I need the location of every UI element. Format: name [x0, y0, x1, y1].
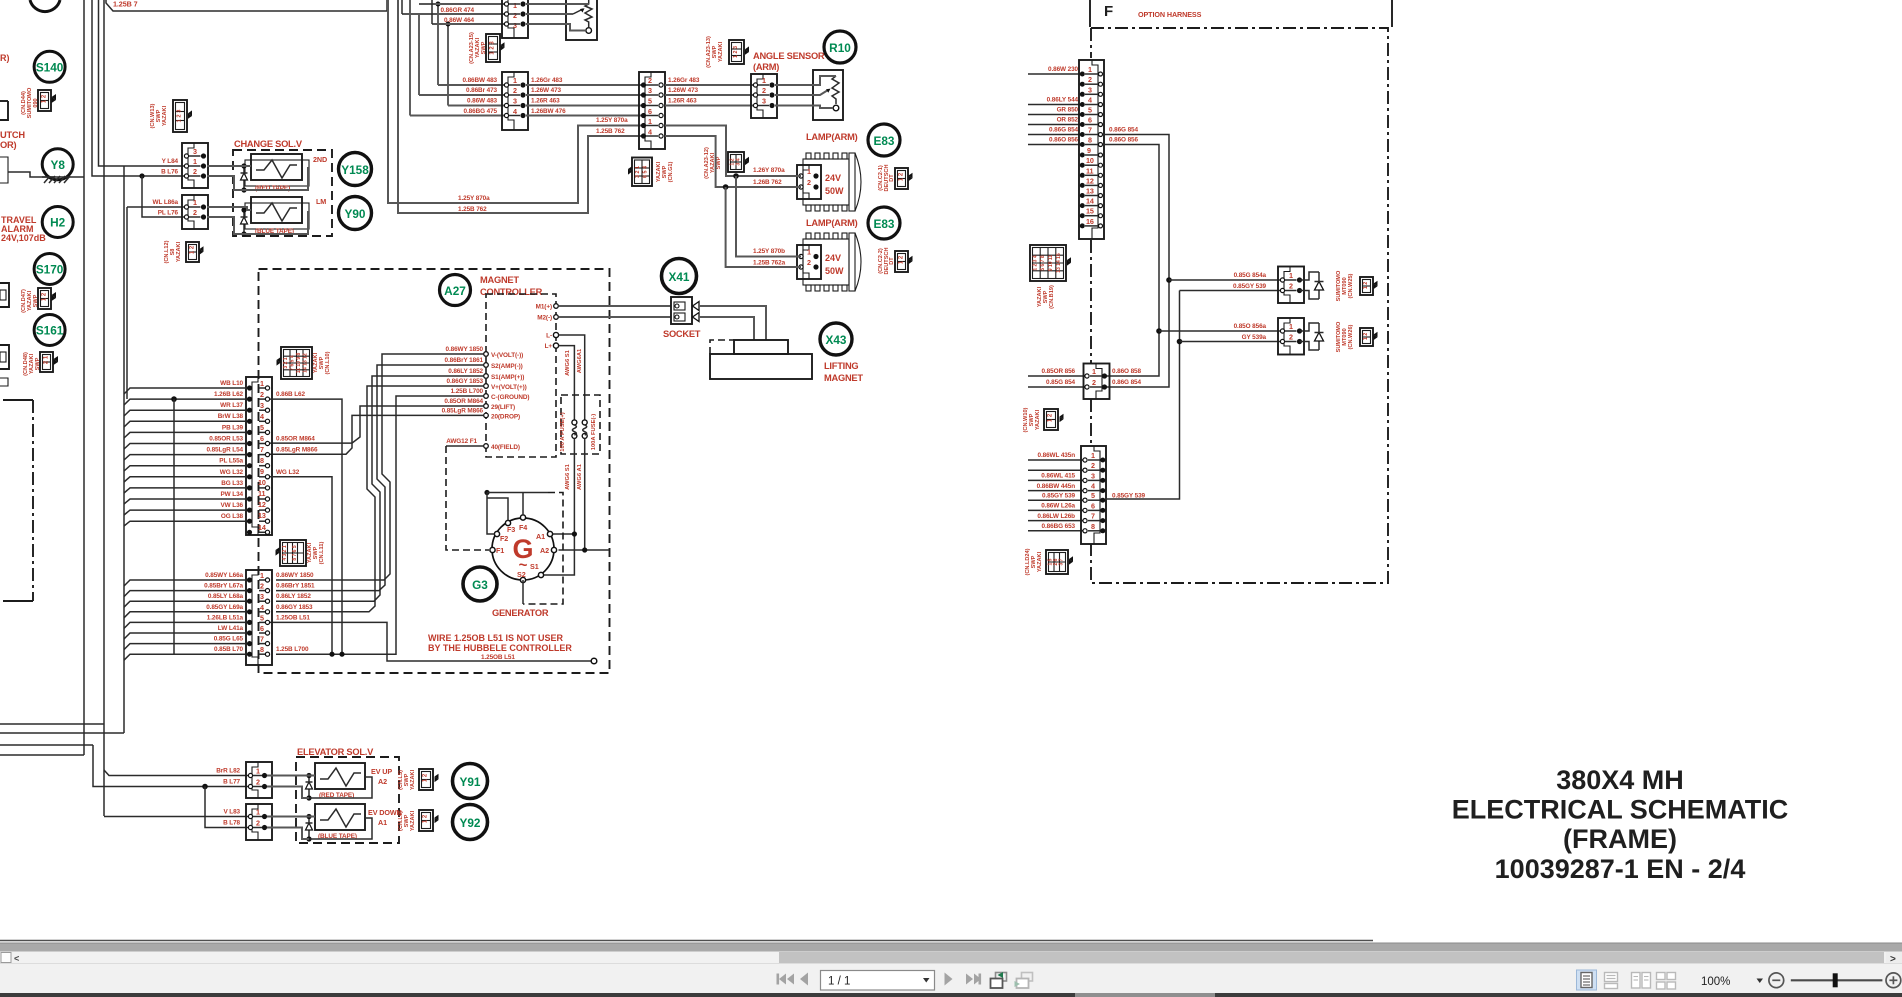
wire 1.25OB L51 run: [270, 622, 597, 663]
svg-text:1: 1: [256, 808, 260, 817]
connector face YAZAKI SWP CN.L10: [277, 347, 332, 379]
toolbar nav prev: [800, 973, 808, 986]
text LIFTING MAGNET: [824, 361, 863, 383]
node diode2 pin2 tap: [1177, 339, 1183, 345]
circle S170: [34, 254, 65, 285]
svg-text:4: 4: [648, 128, 652, 137]
svg-text:1.26B L62: 1.26B L62: [214, 391, 243, 398]
view mode button 1 selected: [1577, 970, 1597, 990]
labels Y L84 B L76: [161, 158, 178, 176]
svg-text:2: 2: [1289, 282, 1293, 291]
svg-text:1.26Y 870a: 1.26Y 870a: [753, 167, 785, 174]
svg-text:YAZAKI: YAZAKI: [1037, 551, 1043, 572]
svg-text:2: 2: [762, 86, 766, 95]
svg-text:3: 3: [1091, 471, 1095, 480]
svg-text:13: 13: [258, 511, 266, 520]
svg-text:24V: 24V: [825, 173, 841, 183]
wires change sol 2: [207, 207, 308, 234]
svg-text:1.25B 7: 1.25B 7: [113, 0, 138, 9]
lamp 1: [797, 153, 861, 211]
svg-text:Y90: Y90: [345, 207, 366, 221]
svg-text:S1(AMP(+)): S1(AMP(+)): [491, 374, 524, 381]
cut text R): [0, 53, 10, 63]
text wire note: [428, 633, 572, 653]
node lamp junctions: [723, 173, 739, 190]
svg-text:1 2: 1 2: [1048, 413, 1054, 422]
svg-text:YAZAKI: YAZAKI: [718, 41, 724, 62]
wires 16-pin left stubs: [1028, 74, 1082, 145]
circle Y158: [339, 153, 372, 186]
svg-text:ELEVATOR SOL.V: ELEVATOR SOL.V: [297, 747, 374, 757]
svg-text:2ND: 2ND: [313, 155, 327, 164]
svg-text:090: 090: [33, 98, 39, 107]
svg-text:8: 8: [1088, 136, 1092, 145]
svg-text:0.86LW L26b: 0.86LW L26b: [1037, 513, 1075, 520]
svg-text:E83: E83: [874, 134, 895, 148]
svg-text:0.86B L62: 0.86B L62: [276, 391, 305, 398]
wire B L78 run: [205, 787, 250, 828]
svg-text:PL L76: PL L76: [158, 210, 179, 217]
svg-text:0.85G 854: 0.85G 854: [1046, 379, 1075, 386]
svg-text:WG L32: WG L32: [276, 469, 300, 476]
svg-text:11: 11: [258, 489, 266, 498]
svg-text:4: 4: [1091, 482, 1095, 491]
labels between connectors: [531, 77, 566, 115]
svg-text:100%: 100%: [1701, 976, 1730, 988]
node top wire junctions: [436, 2, 451, 27]
diode change sol 1: [241, 163, 248, 192]
svg-text:GR 850: GR 850: [1057, 107, 1079, 114]
potentiometer box top: [566, 0, 597, 40]
svg-text:1 2: 1 2: [42, 94, 48, 103]
labels 14-pin left: [206, 380, 243, 520]
svg-text:SWP: SWP: [404, 814, 410, 827]
svg-text:5: 5: [260, 613, 264, 622]
svg-text:YAZAKI: YAZAKI: [410, 810, 416, 831]
svg-text:AWG6 A1: AWG6 A1: [577, 463, 583, 490]
wire WG L32 right riser: [270, 477, 335, 657]
circle S161: [34, 315, 65, 346]
svg-text:2: 2: [513, 11, 517, 20]
svg-text:6: 6: [1088, 116, 1092, 125]
circle E83 second: [868, 207, 900, 239]
wire S2 run: [276, 365, 484, 591]
node diode1 pin1 tap: [1166, 277, 1172, 283]
svg-text:1: 1: [1092, 367, 1096, 376]
svg-text:0.86LY 544: 0.86LY 544: [1047, 97, 1079, 104]
svg-text:0.85BrY L67a: 0.85BrY L67a: [204, 583, 243, 590]
svg-text:1.25Y 870b: 1.25Y 870b: [753, 248, 785, 255]
wire fan to 8-pin: [124, 580, 246, 660]
svg-text:LIFTING: LIFTING: [824, 361, 858, 371]
svg-text:9: 9: [260, 467, 264, 476]
wire pin8 riser: [1103, 145, 1159, 377]
svg-text:0.86G 854: 0.86G 854: [1049, 127, 1078, 134]
wire fan to 14-pin: [124, 388, 246, 526]
wire exits left y733: [0, 732, 124, 734]
svg-text:0.86BrY 1851: 0.86BrY 1851: [276, 583, 315, 590]
svg-text:EV DOWN: EV DOWN: [368, 808, 402, 817]
svg-text:0.85LY L68a: 0.85LY L68a: [208, 593, 244, 600]
wire fuse2 to A2: [559, 438, 610, 552]
svg-text:(CN.G1): (CN.G1): [668, 161, 674, 182]
svg-text:OR 852: OR 852: [1057, 117, 1079, 124]
solenoid LM blue tape: [245, 197, 326, 235]
svg-text:4: 4: [513, 107, 517, 116]
connector face YAZAKI SWP CN.B19: [1030, 245, 1071, 309]
svg-text:1.26W 473: 1.26W 473: [531, 87, 562, 94]
svg-text:3 7: 3 7: [1059, 558, 1065, 565]
wire 40 FIELD dashed run: [446, 446, 489, 550]
connector angle sensor 3-pin: [751, 74, 777, 118]
wire L- to fuse1: [559, 335, 585, 420]
labels 14-pin right: [276, 391, 318, 476]
wire 4pin to 6pin: [526, 85, 643, 116]
svg-text:Y92: Y92: [460, 816, 481, 830]
connector face DEUTSCH DT CN.C2-2: [878, 247, 913, 274]
svg-text:0.86W 230: 0.86W 230: [1048, 66, 1079, 73]
svg-text:1 2 3: 1 2 3: [733, 46, 739, 58]
svg-text:4: 4: [260, 412, 264, 421]
svg-text:7: 7: [260, 635, 264, 644]
viewer chrome: [0, 941, 1902, 997]
svg-text:PL L55a: PL L55a: [219, 458, 243, 465]
svg-text:2: 2: [513, 86, 517, 95]
svg-text:ANGLE SENSOR: ANGLE SENSOR: [753, 51, 825, 61]
svg-text:1.25OB L51: 1.25OB L51: [276, 614, 310, 621]
svg-text:A1: A1: [378, 818, 387, 827]
svg-text:3: 3: [762, 97, 766, 106]
wire 0.86B L62 right riser: [270, 399, 345, 657]
text CHANGE SOL.V: [234, 139, 303, 149]
wire 29 LIFT run: [270, 406, 484, 443]
svg-text:13 14 15: 13 14 15: [1056, 253, 1062, 273]
svg-text:GY 539a: GY 539a: [1242, 334, 1267, 341]
text LAMP(ARM) 1: [806, 132, 858, 142]
svg-text:16: 16: [1086, 217, 1094, 226]
cut text CLUTCH (MOTOR): [0, 130, 25, 150]
svg-text:EV UP: EV UP: [371, 767, 392, 776]
svg-text:1: 1: [1289, 271, 1293, 280]
svg-text:SWP: SWP: [716, 156, 722, 169]
svg-text:OPTION HARNESS: OPTION HARNESS: [1138, 10, 1202, 19]
wire exits left y745: [0, 744, 93, 746]
wire WL L86a: [127, 207, 186, 399]
connector face YAZAKI SWP CN.A23-12: [704, 147, 749, 179]
svg-text:1: 1: [193, 157, 197, 166]
svg-text:11 10 9 8: 11 10 9 8: [296, 352, 302, 373]
labels WL L86a PL L78: [153, 199, 179, 217]
node B L77 junction: [202, 784, 208, 790]
svg-text:Y L84: Y L84: [162, 158, 179, 165]
svg-text:1 2 3 4: 1 2 3 4: [1033, 255, 1039, 271]
svg-text:WL L86a: WL L86a: [153, 199, 179, 206]
solenoid EV DOWN blue tape: [315, 804, 402, 840]
svg-text:SWP: SWP: [1031, 555, 1037, 568]
svg-text:SWP: SWP: [35, 357, 41, 370]
svg-text:0.86BG 653: 0.86BG 653: [1042, 523, 1076, 530]
connector diode1 2-pin: [1278, 267, 1304, 304]
svg-text:2: 2: [807, 178, 811, 187]
circle E83 first: [868, 124, 900, 156]
svg-text:(CN.L10): (CN.L10): [325, 351, 331, 374]
dashed component box cut at left edge: [3, 400, 33, 601]
wires elevator sol 1: [267, 776, 372, 799]
circle Y90: [339, 197, 372, 230]
svg-text:M1(+): M1(+): [536, 304, 552, 311]
svg-text:(CN.W26): (CN.W26): [1348, 324, 1354, 349]
wire fuse1 to S1 A1: [543, 438, 577, 575]
toolbar window icon 2: [1015, 973, 1033, 989]
svg-text:6: 6: [260, 624, 264, 633]
svg-text:29(LIFT): 29(LIFT): [491, 404, 515, 411]
svg-text:WB L10: WB L10: [220, 380, 243, 387]
diode symbol 2: [1300, 323, 1324, 350]
connector 14-pin: [246, 377, 272, 535]
svg-text:V L83: V L83: [223, 809, 240, 816]
svg-text:L+: L+: [545, 343, 553, 350]
svg-text:1: 1: [648, 117, 652, 126]
circle A27: [440, 275, 471, 306]
svg-text:0.85B L70: 0.85B L70: [214, 646, 243, 653]
svg-text:0.86WY 1850: 0.86WY 1850: [276, 572, 314, 579]
svg-text:10: 10: [1086, 156, 1094, 165]
svg-text:0.86O 856: 0.86O 856: [1049, 137, 1078, 144]
svg-text:B L76: B L76: [161, 169, 178, 176]
svg-text:3: 3: [648, 86, 652, 95]
connector face YAZAKI SWP CN.LD24: [1025, 548, 1073, 575]
svg-text:R): R): [0, 53, 10, 63]
svg-text:B L78: B L78: [223, 820, 240, 827]
svg-text:0.86G 854: 0.86G 854: [1109, 127, 1138, 134]
text TRAVEL ALARM: [1, 215, 46, 243]
svg-text:1.26LB L51a: 1.26LB L51a: [207, 614, 244, 621]
controller pins L- L+: [545, 332, 559, 350]
connector 2-pin option: [1084, 364, 1110, 400]
svg-text:(CN.D44): (CN.D44): [21, 91, 27, 115]
connector 4-pin CN.A23: [502, 72, 528, 130]
svg-text:S2: S2: [517, 570, 526, 579]
svg-text:YAZAKI: YAZAKI: [162, 105, 168, 126]
wire 1.25Y 870a run: [388, 0, 643, 203]
svg-text:0.86Br 473: 0.86Br 473: [466, 87, 498, 94]
labels right of 6-pin: [668, 77, 785, 186]
svg-text:PW L34: PW L34: [221, 491, 244, 498]
svg-text:24V: 24V: [825, 253, 841, 263]
svg-text:1 2: 1 2: [1363, 333, 1369, 341]
text SOCKET: [663, 329, 701, 339]
svg-text:14: 14: [258, 523, 266, 532]
connector option 8-pin: [1081, 446, 1106, 544]
wire exits left y755: [0, 754, 84, 756]
svg-text:10: 10: [258, 478, 266, 487]
toolbar page combo: [821, 971, 935, 991]
connector face YAZAKI SWP CN.L5: [398, 769, 439, 790]
view mode button 3: [1632, 973, 1651, 989]
circle S140: [34, 51, 65, 82]
svg-text:1.25B L700: 1.25B L700: [276, 646, 309, 653]
svg-text:F4: F4: [519, 523, 527, 532]
svg-text:0.86GR 474: 0.86GR 474: [441, 7, 475, 14]
svg-text:1 2: 1 2: [1363, 282, 1369, 290]
svg-text:2: 2: [1289, 333, 1293, 342]
wire pin7 riser: [1103, 135, 1169, 388]
svg-text:BrW L38: BrW L38: [218, 413, 244, 420]
wire top-left corner run with cut label: [106, 0, 387, 11]
svg-text:OG L38: OG L38: [221, 513, 244, 520]
fuse 100A FUSE(-): [582, 414, 597, 451]
svg-text:6 5 4: 6 5 4: [643, 166, 649, 178]
svg-text:0.85G 854a: 0.85G 854a: [1234, 272, 1267, 279]
svg-text:0.85OR M864: 0.85OR M864: [444, 398, 483, 405]
wire V+ run: [276, 386, 484, 612]
circle H2: [42, 207, 73, 238]
svg-text:V-(VOLT(-)): V-(VOLT(-)): [491, 352, 523, 359]
svg-text:R10: R10: [829, 41, 851, 55]
svg-text:1.26W 473: 1.26W 473: [668, 87, 699, 94]
svg-text:20(DROP): 20(DROP): [491, 413, 520, 420]
svg-text:4 3 2 1: 4 3 2 1: [282, 545, 288, 561]
dashed box option harness: [1091, 28, 1388, 583]
wire S1 run: [276, 376, 484, 601]
toolbar nav last: [966, 974, 981, 985]
svg-text:0.86O 856: 0.86O 856: [1109, 137, 1138, 144]
svg-text:1: 1: [1088, 65, 1092, 74]
svg-text:6: 6: [260, 434, 264, 443]
svg-text:2: 2: [193, 167, 197, 176]
labels controller left wires: [442, 346, 484, 445]
svg-text:BrR L82: BrR L82: [216, 768, 240, 775]
connector elevator lower 2-pin: [246, 804, 272, 840]
svg-text:7: 7: [1091, 512, 1095, 521]
svg-text:5 6 7 8: 5 6 7 8: [1040, 255, 1046, 271]
connector change sol lower 2-pin: [182, 195, 208, 229]
connector face YAZAKI SWP CN.D47: [21, 288, 56, 313]
text F zone label: [1104, 3, 1113, 20]
svg-text:OR): OR): [0, 140, 16, 150]
wires to lamp2: [726, 176, 801, 267]
labels V L83 B L78: [223, 809, 240, 827]
svg-text:1.25Y 870a: 1.25Y 870a: [596, 117, 628, 124]
wire top verticals into 4-pin connector: [410, 0, 448, 116]
svg-text:0.86WY 1850: 0.86WY 1850: [445, 346, 483, 353]
controller pins M1 M2: [536, 304, 559, 322]
svg-text:AWG12 F1: AWG12 F1: [446, 438, 477, 445]
toolbar window icon 1: [991, 972, 1007, 988]
connector face SUMITOMO CN.W26: [1360, 328, 1378, 346]
svg-text:3 2 1: 3 2 1: [283, 357, 289, 368]
svg-text:SWP: SWP: [156, 109, 162, 122]
svg-text:(FRAME): (FRAME): [1563, 824, 1677, 854]
label 1.25Y 870a mid: [596, 117, 628, 135]
svg-text:8 7 6 5: 8 7 6 5: [292, 545, 298, 561]
svg-text:LAMP(ARM): LAMP(ARM): [806, 132, 858, 142]
solenoid 2ND red tape: [245, 154, 327, 192]
svg-text:F3: F3: [507, 525, 515, 534]
svg-text:1.26BW 476: 1.26BW 476: [531, 108, 566, 115]
zoom slider: [1791, 973, 1883, 987]
wire B L77 run: [93, 745, 250, 787]
svg-text:2: 2: [1088, 75, 1092, 84]
svg-text:0.85OR M864: 0.85OR M864: [276, 436, 315, 443]
svg-text:AWG6 S1: AWG6 S1: [565, 349, 571, 376]
toolbar: [0, 964, 1902, 994]
wire Y L84 feed: [99, 0, 187, 166]
wires option 8-pin left stubs: [1028, 460, 1085, 531]
wire diode1 pin1: [1169, 279, 1283, 281]
svg-text:0.86BG 475: 0.86BG 475: [464, 108, 498, 115]
connector face YAZAKI SWP CN.G1: [628, 158, 674, 187]
svg-text:CHANGE SOL.V: CHANGE SOL.V: [234, 139, 303, 149]
svg-text:B L77: B L77: [223, 779, 240, 786]
svg-text:1: 1: [513, 1, 517, 10]
frame zone divider left: [1089, 0, 1091, 27]
svg-text:0.86W 464: 0.86W 464: [444, 17, 475, 24]
svg-text:3 2 1: 3 2 1: [635, 166, 641, 178]
svg-text:S2(AMP(-)): S2(AMP(-)): [491, 363, 523, 370]
svg-text:(CN.D47): (CN.D47): [21, 289, 27, 313]
svg-text:1.25OB L51: 1.25OB L51: [481, 654, 515, 661]
wire Y8 stub: [70, 176, 84, 178]
wire pot feeds: [526, 4, 589, 31]
svg-text:1.26R 463: 1.26R 463: [531, 98, 560, 105]
svg-text:AWG6A1: AWG6A1: [577, 348, 583, 373]
text MAGNET CONTROLLER: [480, 275, 543, 297]
svg-text:2: 2: [256, 778, 260, 787]
svg-text:0.86LY 1852: 0.86LY 1852: [276, 593, 311, 600]
svg-text:A1: A1: [536, 532, 545, 541]
svg-text:24V,107dB: 24V,107dB: [1, 233, 46, 243]
svg-text:0.85OR 856: 0.85OR 856: [1042, 368, 1076, 375]
svg-text:0.86BrY 1861: 0.86BrY 1861: [445, 357, 484, 364]
diode symbol 1: [1300, 272, 1324, 299]
svg-text:(ARM): (ARM): [753, 62, 779, 72]
svg-text:GENERATOR: GENERATOR: [492, 608, 549, 618]
circle Y91: [453, 764, 488, 799]
svg-text:1: 1: [260, 571, 264, 580]
svg-text:1.25B 762a: 1.25B 762a: [753, 260, 786, 267]
connector 6-pin CN.G1: [639, 72, 665, 149]
text GENERATOR: [492, 608, 549, 618]
labels option 8-pin left: [1037, 452, 1076, 530]
svg-text:3 4: 3 4: [736, 158, 742, 165]
svg-text:4: 4: [1088, 96, 1092, 105]
svg-text:VW L36: VW L36: [221, 502, 244, 509]
svg-text:X43: X43: [826, 333, 847, 347]
label 1.25Y 870b: [753, 248, 786, 267]
svg-text:0.85G L65: 0.85G L65: [214, 636, 244, 643]
svg-text:1.26R 463: 1.26R 463: [668, 98, 697, 105]
svg-text:9 10 11: 9 10 11: [1048, 255, 1054, 272]
svg-text:M2(-): M2(-): [537, 315, 552, 322]
svg-text:F: F: [1104, 3, 1113, 20]
socket X41: [671, 297, 699, 324]
wire top 3-pin stubs: [402, 0, 506, 24]
wire left bus 2: [103, 0, 105, 816]
svg-text:X41: X41: [669, 270, 690, 284]
controller left pins: [484, 352, 530, 451]
svg-text:(CN.W10): (CN.W10): [1023, 407, 1029, 432]
svg-text:WR L37: WR L37: [220, 402, 243, 409]
svg-text:380X4 MH: 380X4 MH: [1556, 765, 1684, 795]
label 0.86W 464: [444, 17, 475, 24]
lifting magnet: [710, 340, 812, 379]
svg-text:14 13 12: 14 13 12: [303, 353, 309, 373]
svg-text:0.85LgR M866: 0.85LgR M866: [442, 407, 484, 414]
svg-text:Y8: Y8: [50, 158, 65, 172]
svg-text:S161: S161: [36, 324, 64, 338]
svg-text:8: 8: [1091, 522, 1095, 531]
